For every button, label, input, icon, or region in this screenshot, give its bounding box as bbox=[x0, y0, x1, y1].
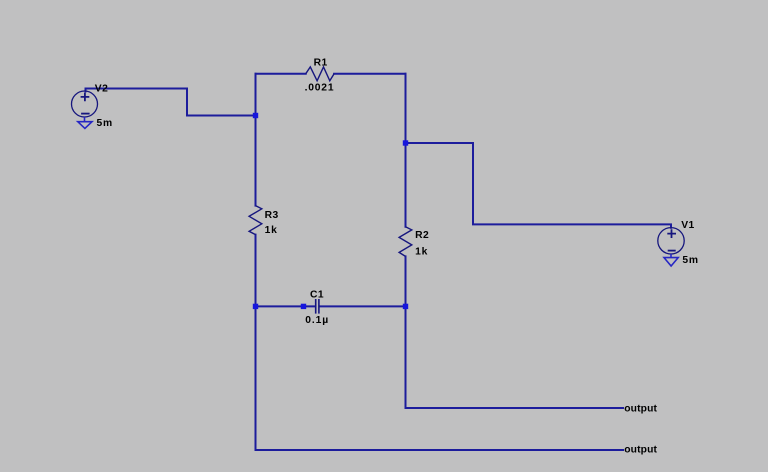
svg-text:R2: R2 bbox=[415, 230, 429, 241]
svg-text:output: output bbox=[624, 404, 657, 415]
svg-text:5m: 5m bbox=[682, 255, 698, 266]
svg-text:V1: V1 bbox=[681, 220, 695, 231]
svg-text:0.1µ: 0.1µ bbox=[305, 315, 329, 326]
svg-text:C1: C1 bbox=[310, 290, 324, 301]
svg-text:5m: 5m bbox=[97, 118, 113, 129]
svg-text:.0021: .0021 bbox=[305, 82, 335, 93]
svg-text:R1: R1 bbox=[314, 57, 328, 68]
svg-text:V2: V2 bbox=[95, 84, 109, 95]
svg-text:1k: 1k bbox=[415, 246, 428, 257]
svg-text:R3: R3 bbox=[265, 210, 279, 221]
svg-text:1k: 1k bbox=[265, 225, 278, 236]
svg-text:output: output bbox=[624, 445, 657, 456]
